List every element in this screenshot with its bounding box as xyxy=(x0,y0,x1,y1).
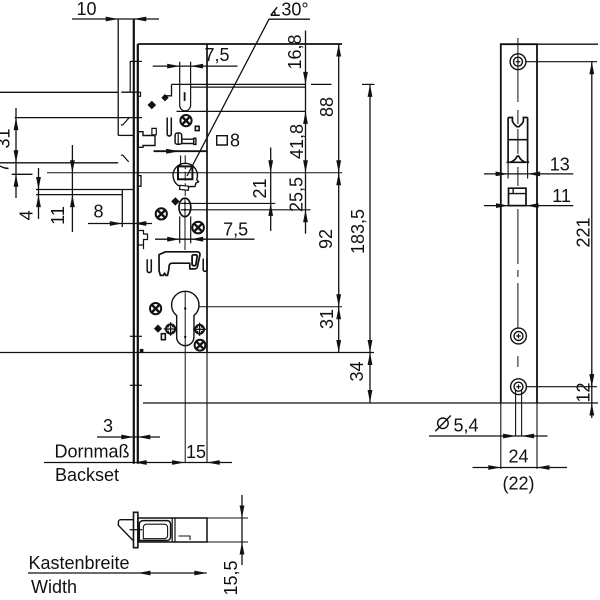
svg-text:8: 8 xyxy=(93,202,103,222)
small square x197 xyxy=(195,126,199,130)
profile lower line y189 xyxy=(36,189,134,191)
svg-text:92: 92 xyxy=(316,229,336,249)
bottom view divider 1 xyxy=(171,519,173,542)
screw lower right xyxy=(195,340,206,351)
follower centerline v xyxy=(184,155,186,196)
clip on case front xyxy=(138,231,148,250)
dim 221 line xyxy=(591,62,593,387)
case line y111 xyxy=(177,110,306,112)
ext 15,5 bottom xyxy=(207,541,248,543)
plate screw hole bottom xyxy=(511,379,527,395)
faceplate front line xyxy=(133,19,135,464)
bottom view case outline xyxy=(138,518,207,542)
plate ext left xyxy=(500,403,502,469)
roller latch cutout xyxy=(508,118,527,163)
svg-text:4: 4 xyxy=(17,210,37,220)
slide plate line with arrow xyxy=(154,150,208,152)
dim 21 line xyxy=(270,148,272,232)
svg-text:183,5: 183,5 xyxy=(348,209,368,254)
latch plate line upper xyxy=(172,83,306,85)
30 deg leader line xyxy=(187,19,310,176)
svg-text:10: 10 xyxy=(76,0,96,19)
svg-text:31: 31 xyxy=(0,128,14,148)
dim 8 line xyxy=(88,223,152,225)
ext 15,5 top xyxy=(207,517,248,519)
roller centerline xyxy=(184,199,186,250)
svg-text:12: 12 xyxy=(574,382,594,402)
svg-text:Kastenbreite: Kastenbreite xyxy=(28,553,129,573)
roller cutout bottom xyxy=(507,156,530,162)
svg-text:221: 221 xyxy=(574,217,594,247)
case back extension xyxy=(206,353,208,463)
euro profile cylinder hole xyxy=(172,291,199,345)
svg-text:Dornmaß: Dornmaß xyxy=(54,442,129,462)
plate centerline dash c xyxy=(517,356,519,367)
tick y84 col C xyxy=(362,83,375,85)
dim 4 line xyxy=(38,168,40,219)
dim 10 line xyxy=(72,18,159,20)
profile lower line y195 xyxy=(36,194,122,196)
svg-text:3: 3 xyxy=(103,416,113,436)
plate screw hole top xyxy=(510,54,526,70)
roller below follower xyxy=(179,198,191,217)
diamond marker 4 xyxy=(154,325,162,333)
svg-text:88: 88 xyxy=(317,97,337,117)
dim 13 line xyxy=(484,173,573,175)
follower axis line xyxy=(47,172,342,174)
slot small left low xyxy=(147,259,151,272)
dim 12 line xyxy=(591,371,593,418)
profile edge y174 xyxy=(12,173,33,175)
screw middle right xyxy=(192,222,204,234)
dim 7,5 upper line xyxy=(153,65,238,67)
plate top edge extension right xyxy=(537,43,598,45)
bottom view latch wedge xyxy=(118,520,133,541)
square cutout notch xyxy=(512,188,514,193)
screw middle left xyxy=(156,208,167,219)
bevel mark lower xyxy=(121,155,129,162)
bottom view divider 2 xyxy=(174,519,176,542)
plate centerline xyxy=(517,38,519,102)
hook lever slot xyxy=(192,255,197,266)
lug on case front xyxy=(138,176,141,187)
door profile wall line y118 xyxy=(15,117,142,119)
plate centerline seg3 xyxy=(517,167,519,186)
latch slot xyxy=(180,62,191,111)
follower circle with notch xyxy=(173,163,199,187)
case bottom notch xyxy=(140,349,144,353)
svg-text:11: 11 xyxy=(552,186,571,206)
square 8 symbol xyxy=(217,136,228,145)
follower square hole xyxy=(178,166,192,179)
plate centerline seg2 xyxy=(517,129,519,154)
screw fixing top xyxy=(180,115,191,126)
ext dia54 right xyxy=(521,390,523,436)
dim col A x305 xyxy=(305,31,307,234)
faceplate weld tick xyxy=(130,335,142,337)
bottom view notch xyxy=(179,536,191,540)
cylinder axis line right xyxy=(199,306,342,308)
bottom view faceplate tick xyxy=(130,529,143,531)
roller cutout mid line xyxy=(508,139,527,141)
profile lower inner edge x122 xyxy=(121,190,123,228)
svg-text:15: 15 xyxy=(186,442,206,462)
faceplate back line xyxy=(137,44,139,464)
dim 11 right line xyxy=(484,205,573,207)
slot small x169 xyxy=(167,118,171,136)
plate screw hole middle xyxy=(511,328,527,344)
long bottom line / case bottom xyxy=(0,352,374,354)
svg-text:(22): (22) xyxy=(502,474,534,494)
latch plate step xyxy=(164,84,171,98)
ext 13 left xyxy=(507,162,509,178)
case top edge xyxy=(138,43,342,45)
latch tail slot xyxy=(179,216,181,243)
bottom view faceplate xyxy=(134,512,138,547)
kastenbreite dim line xyxy=(28,572,207,574)
dia symbol xyxy=(435,416,451,432)
follower foot xyxy=(180,185,189,190)
tick y84 col B xyxy=(311,83,332,85)
svg-text:8: 8 xyxy=(230,131,240,151)
dim 24 line xyxy=(473,467,568,469)
diamond marker 3 xyxy=(171,197,179,205)
dim 15,5 line xyxy=(241,495,243,565)
door profile front edge xyxy=(117,19,119,135)
faceplate weld tick xyxy=(130,384,142,386)
latch slot pin xyxy=(184,92,186,101)
slot small right low xyxy=(203,259,207,272)
latch plate line lower xyxy=(191,86,306,88)
svg-text:13: 13 xyxy=(550,155,570,175)
dim 3 line xyxy=(97,436,160,438)
plate centerline dash b xyxy=(517,270,519,277)
small rect lower xyxy=(161,334,165,340)
bottom plane line y403 xyxy=(143,402,598,404)
svg-text:30°: 30° xyxy=(281,0,308,20)
ext screw top xyxy=(526,61,597,63)
door profile outer line left xyxy=(0,91,118,93)
svg-text:11: 11 xyxy=(48,206,68,225)
svg-text:25,5: 25,5 xyxy=(287,177,307,212)
plate ext right xyxy=(536,403,538,469)
plate centerline seg4 xyxy=(517,209,519,264)
svg-text:7,5: 7,5 xyxy=(204,45,229,65)
svg-text:5,4: 5,4 xyxy=(453,416,478,436)
case back edge xyxy=(206,44,208,353)
door profile corner xyxy=(118,134,134,136)
diamond marker 2 xyxy=(161,94,168,101)
square cutout inner line xyxy=(509,193,527,195)
svg-text:7,5: 7,5 xyxy=(223,219,248,239)
svg-text:Backset: Backset xyxy=(55,465,119,485)
bolt shaft xyxy=(182,139,194,143)
30 deg angle symbol xyxy=(271,7,280,15)
bolt end cap xyxy=(194,138,196,144)
lever part upper xyxy=(138,132,155,148)
deadbolt hook lever xyxy=(159,252,200,276)
backset dim line xyxy=(44,462,232,464)
svg-text:7: 7 xyxy=(0,162,13,172)
screw lower left xyxy=(150,303,161,314)
profile step notch xyxy=(138,92,140,96)
bevel mark upper xyxy=(121,118,129,125)
latch head front edge xyxy=(129,61,131,92)
door profile wall line y163 xyxy=(0,162,118,164)
svg-text:16,8: 16,8 xyxy=(285,34,305,69)
faceplate weld tick xyxy=(130,60,142,62)
faceplate front view outline xyxy=(501,44,537,403)
follower square ext line xyxy=(180,156,182,167)
bolt head line xyxy=(177,134,179,144)
roller upper line to 21 xyxy=(181,202,275,204)
roller lower line to 25,5 xyxy=(181,209,311,211)
svg-text:21: 21 xyxy=(250,178,270,198)
svg-text:Width: Width xyxy=(31,577,77,597)
svg-text:34: 34 xyxy=(347,361,367,381)
ext screw bottom xyxy=(527,386,597,388)
dim col C x370 xyxy=(369,84,371,402)
ext dia54 left xyxy=(515,390,517,436)
cylinder axis vertical xyxy=(184,291,186,463)
svg-text:15,5: 15,5 xyxy=(221,560,241,595)
dim 11 line xyxy=(71,145,73,232)
svg-text:31: 31 xyxy=(317,309,337,329)
diamond marker 1 xyxy=(148,101,157,110)
small rect part xyxy=(152,128,156,134)
bottom view latch body inner xyxy=(143,524,167,539)
plate centerline seg5 xyxy=(517,283,519,328)
dim 31 left line xyxy=(15,108,17,198)
adjusting screw left xyxy=(164,322,178,336)
spindle bolt head xyxy=(175,133,182,144)
door profile outer line inner xyxy=(121,91,138,93)
dim dia 5,4 line xyxy=(429,435,548,437)
dim col B x339 xyxy=(338,44,340,353)
svg-text:41,8: 41,8 xyxy=(287,124,307,159)
adjusting screw right xyxy=(193,323,206,336)
square cutout 11 xyxy=(509,188,527,205)
bottom view latch body outer xyxy=(139,521,170,541)
svg-text:24: 24 xyxy=(508,447,528,467)
plate centerline dash a xyxy=(517,110,519,124)
dim 7,5 lower line xyxy=(155,238,255,240)
